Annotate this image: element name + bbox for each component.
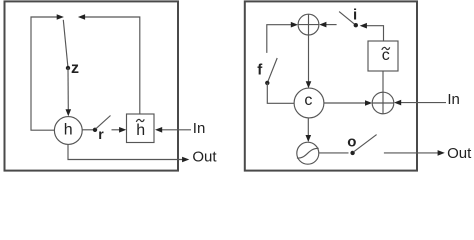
svg-text:h: h [136, 122, 145, 139]
svg-text:z: z [71, 60, 79, 77]
wire adder2 to c-tilde [382, 71, 384, 92]
switch f hinge dot [265, 81, 269, 85]
switch f label [257, 61, 263, 78]
switch i blade [339, 12, 356, 26]
adder 1 plus circle [298, 14, 319, 35]
switch r hinge dot [93, 128, 97, 132]
switch r label [98, 126, 104, 142]
Out wire with arrowhead (GRU) [68, 144, 189, 162]
switch z hinge dot [66, 66, 70, 70]
svg-text:c: c [304, 92, 312, 109]
In label (LSTM) [447, 91, 460, 108]
switch o label [347, 134, 356, 151]
wire c to adder2 with arrowhead [324, 100, 372, 106]
svg-text:i: i [353, 6, 357, 23]
wire h-tilde feedback to z right contact [84, 17, 140, 114]
svg-text:Out: Out [447, 145, 472, 162]
node h circle [54, 117, 82, 145]
switch i label [353, 6, 357, 23]
switch z label [71, 60, 79, 77]
wire c-tilde to i with arrowhead [360, 23, 384, 41]
GRU cell outer box [5, 1, 179, 170]
adder 2 plus circle [372, 92, 394, 114]
switch r blade [96, 116, 111, 129]
svg-text:Out: Out [192, 149, 217, 166]
wire adder1 to c with arrowhead [306, 35, 312, 88]
arrowhead into z left contact [57, 14, 64, 20]
svg-text:In: In [447, 91, 460, 108]
wire h feedback loop to z left contact [31, 17, 58, 130]
svg-text:f: f [257, 61, 263, 78]
wire i to adder1 with arrowhead [319, 22, 336, 28]
arrowhead into z right contact [78, 14, 85, 20]
candidate box h-tilde [127, 114, 155, 143]
svg-text:r: r [98, 126, 104, 142]
switch z blade [63, 20, 68, 68]
switch i hinge dot [354, 23, 358, 27]
switch o hinge dot [350, 151, 354, 155]
Out label (GRU) [192, 149, 217, 166]
wire c to squash with arrowhead [306, 118, 312, 142]
In wire with arrowhead (LSTM) [394, 100, 446, 106]
switch f blade [267, 58, 277, 83]
In wire with arrowhead (GRU) [155, 127, 191, 133]
svg-text:h: h [64, 122, 73, 139]
wire h to r switch [82, 129, 93, 131]
wire r to h-tilde with arrowhead [112, 127, 127, 133]
wire z to h with arrowhead [66, 68, 72, 116]
candidate box c-tilde [368, 41, 398, 71]
memory cell c circle [294, 88, 324, 118]
Out wire with arrowhead (LSTM) [384, 150, 445, 156]
svg-text:In: In [193, 120, 206, 137]
squashing nonlinearity circle [297, 142, 319, 164]
LSTM cell outer box [245, 1, 417, 170]
wire f to c [267, 83, 294, 103]
wire f to adder1 with arrowhead [267, 22, 298, 53]
wire squash to o switch [319, 152, 349, 154]
svg-text:o: o [347, 134, 356, 151]
Out label (LSTM) [447, 145, 472, 162]
switch o blade [354, 135, 377, 152]
In label (GRU) [193, 120, 206, 137]
